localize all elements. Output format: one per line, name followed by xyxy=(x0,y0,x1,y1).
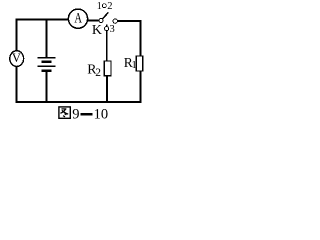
resistor R1 xyxy=(136,56,143,71)
wire left vertical lower xyxy=(16,67,18,103)
wire R2 down to bottom wire xyxy=(106,76,108,102)
caption glyph 图 xyxy=(59,107,70,118)
caption dash xyxy=(81,113,93,115)
wire right vertical lower xyxy=(140,71,142,103)
wire top horizontal (left corner to ammeter) xyxy=(15,19,68,21)
wire ammeter to switch pivot xyxy=(88,20,100,22)
switch K pivot xyxy=(99,18,103,22)
battery plate short 1 xyxy=(41,60,51,62)
wire bottom horizontal xyxy=(15,101,141,103)
wire right vertical upper xyxy=(140,20,142,56)
contact 3 tick xyxy=(106,25,108,27)
wire contact3 down to R2 xyxy=(106,31,108,62)
battery plate short 2 xyxy=(41,70,51,72)
contact 2 xyxy=(113,19,117,23)
svg-text:9: 9 xyxy=(72,107,79,123)
svg-text:1: 1 xyxy=(97,1,102,12)
wire battery bottom xyxy=(46,72,48,103)
svg-text:10: 10 xyxy=(94,107,109,123)
contact 3 xyxy=(105,27,109,31)
svg-text:A: A xyxy=(74,11,82,27)
battery plate long 2 xyxy=(38,65,56,67)
battery plate long 1 xyxy=(38,57,56,59)
contact 1 xyxy=(102,4,106,8)
svg-text:1: 1 xyxy=(132,60,137,71)
resistor R2 xyxy=(104,61,111,76)
svg-text:2: 2 xyxy=(95,67,101,79)
wire battery top junction xyxy=(46,19,48,58)
voltmeter V xyxy=(10,51,24,67)
switch K blade xyxy=(102,12,108,19)
ammeter A xyxy=(68,9,87,28)
wire left vertical upper xyxy=(16,19,18,52)
svg-text:3: 3 xyxy=(110,24,115,35)
svg-text:2: 2 xyxy=(107,1,112,12)
svg-text:K: K xyxy=(92,23,102,38)
wire contact2 to top-right corner xyxy=(117,20,141,22)
svg-text:V: V xyxy=(12,51,21,65)
